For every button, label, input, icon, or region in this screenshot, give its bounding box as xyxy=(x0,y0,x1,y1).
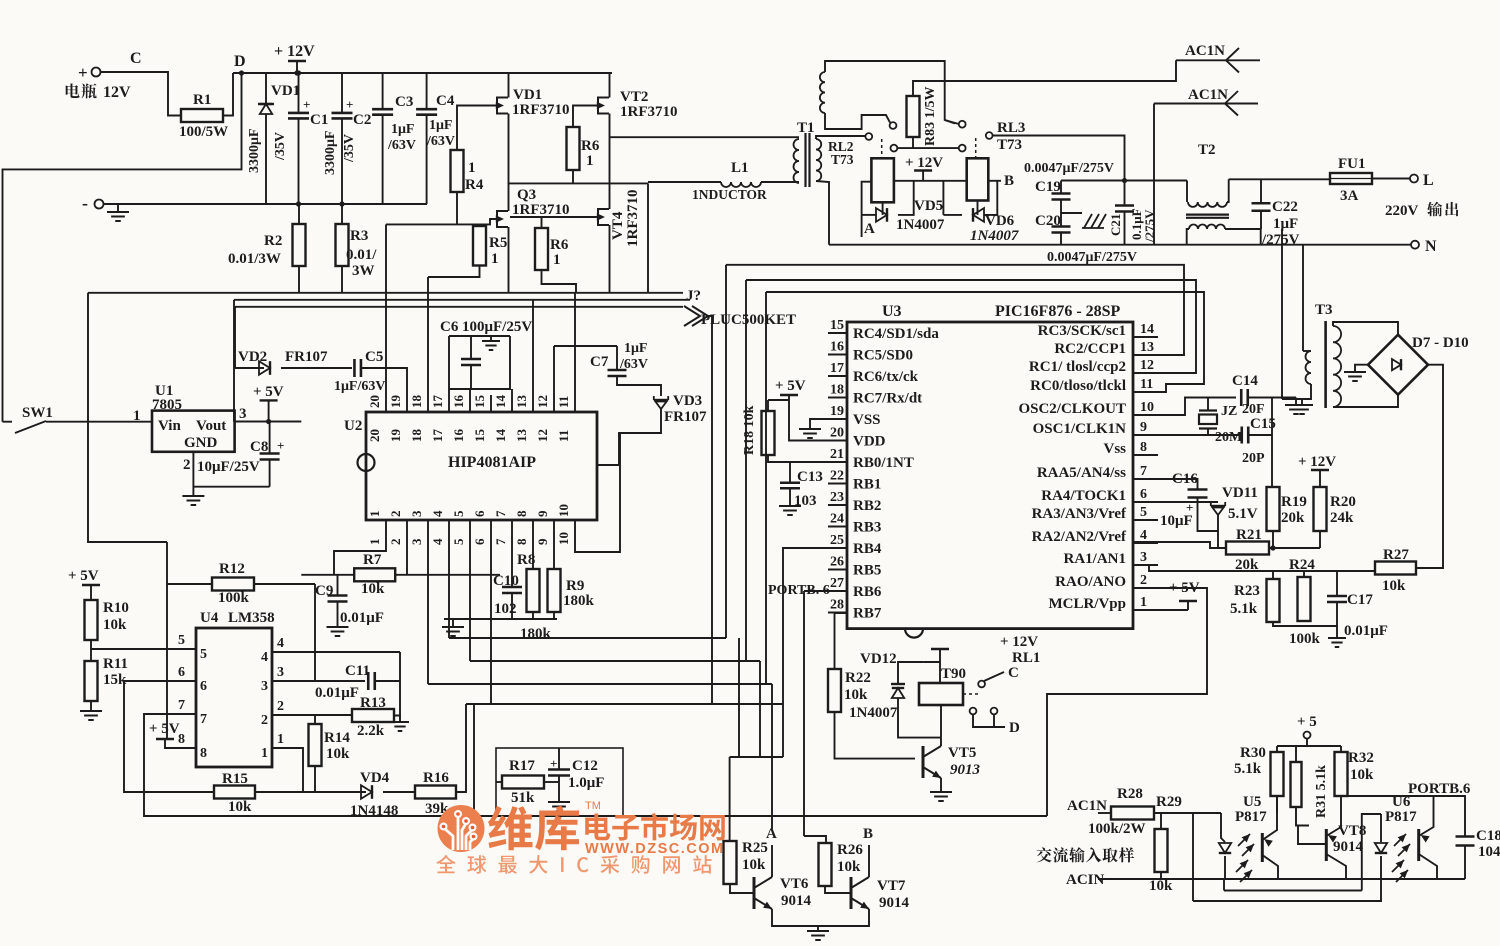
diode VD12 bar xyxy=(891,683,905,685)
wire R1 to node D xyxy=(223,73,233,116)
wire C18 bottom xyxy=(1464,846,1466,880)
svg-text:1RF3710: 1RF3710 xyxy=(512,102,570,118)
wire R3 bottom xyxy=(341,266,343,293)
resistor R9 xyxy=(548,569,561,612)
wire U2 pin20 up xyxy=(385,224,387,412)
transformer T2 core top xyxy=(1186,214,1229,216)
wire U2 pin14 up xyxy=(511,389,513,412)
terminal battery minus xyxy=(95,200,104,209)
svg-text:C: C xyxy=(1008,665,1019,681)
svg-text:C20: C20 xyxy=(1035,213,1061,229)
svg-text:10k: 10k xyxy=(844,687,868,703)
svg-text:5: 5 xyxy=(1140,505,1147,520)
svg-text:PORTB.6: PORTB.6 xyxy=(1408,781,1471,797)
svg-text:+: + xyxy=(346,97,353,112)
resistor R28 xyxy=(1111,807,1154,820)
wire R11 bottom xyxy=(90,701,92,711)
svg-text:3: 3 xyxy=(409,538,424,545)
svg-text:1RF3710: 1RF3710 xyxy=(512,202,570,218)
opto U6 arrow1 xyxy=(1398,834,1406,842)
wire J line2 xyxy=(234,299,690,301)
svg-text:1: 1 xyxy=(261,746,268,761)
svg-text:10μF/25V: 10μF/25V xyxy=(197,459,260,475)
svg-text:1μF: 1μF xyxy=(429,118,453,133)
svg-text:9: 9 xyxy=(535,510,550,517)
wire C8 top xyxy=(269,422,271,454)
pin 9 stub xyxy=(1133,434,1158,436)
svg-text:2: 2 xyxy=(277,699,284,714)
contact RL1 throw2 xyxy=(991,708,998,715)
svg-text:R1: R1 xyxy=(193,92,211,108)
svg-text:R15: R15 xyxy=(222,771,248,787)
wire C6 top line xyxy=(449,335,510,337)
svg-text:2: 2 xyxy=(1140,573,1147,588)
wire R30 bottom tail xyxy=(1276,796,1278,813)
transistor VT5 emitter arrow xyxy=(932,771,941,778)
pin 15 stub xyxy=(828,332,847,334)
svg-text:C9: C9 xyxy=(315,583,333,599)
mosfet Q3 gate arrow xyxy=(496,215,504,222)
wire VT4 gate line xyxy=(542,216,602,218)
svg-text:3A: 3A xyxy=(1340,188,1359,204)
wire U1 gnd to C8 bottom xyxy=(193,486,269,488)
svg-text:16: 16 xyxy=(451,395,466,409)
junction C1 top xyxy=(296,70,301,75)
wire U6 LED top xyxy=(1380,814,1382,842)
svg-text:R17: R17 xyxy=(509,758,535,774)
wire +5V wrap xyxy=(88,293,167,542)
transformer T1 core bar2 xyxy=(808,133,810,187)
svg-text:13: 13 xyxy=(514,429,529,443)
contact RL2 lower xyxy=(891,145,898,152)
wire +5 down xyxy=(1306,739,1308,747)
svg-text:20F: 20F xyxy=(1242,402,1265,417)
svg-text:20k: 20k xyxy=(1281,510,1305,526)
wire VD5 right xyxy=(898,181,914,215)
wire VD1 bottom xyxy=(265,114,267,204)
svg-text:13: 13 xyxy=(514,395,529,409)
wire R23 R24 bottom link xyxy=(1273,622,1337,626)
svg-text:1N4148: 1N4148 xyxy=(350,803,398,819)
capacitor C4 xyxy=(416,109,437,115)
power +12V RL1 bar xyxy=(931,648,949,650)
svg-text:L1: L1 xyxy=(731,160,749,176)
svg-text:OSC1/CLK1N: OSC1/CLK1N xyxy=(1033,421,1127,437)
wire VD2 left xyxy=(235,367,264,369)
svg-text:1: 1 xyxy=(586,153,594,169)
wire R12 left xyxy=(167,583,212,585)
wire C12 bottom xyxy=(558,776,560,802)
svg-text:/63V: /63V xyxy=(387,138,416,153)
wire C7 line xyxy=(554,345,617,347)
wire pin6 loop xyxy=(124,681,214,792)
svg-text:17: 17 xyxy=(430,429,445,443)
svg-text:/35V: /35V xyxy=(342,134,357,163)
capacitor C9 xyxy=(328,596,348,602)
transformer T1 secondary xyxy=(816,139,821,181)
wire node A stub xyxy=(861,215,863,237)
wire R18 top stem xyxy=(767,400,769,411)
ground C9 xyxy=(327,627,349,636)
resistor R6b xyxy=(535,228,548,270)
wire C6 stem top xyxy=(470,336,472,358)
wire bus1 xyxy=(449,637,726,639)
wire R12 to pin3 col xyxy=(314,584,316,681)
wire JZ top stem xyxy=(1207,398,1209,411)
transformer T1 primary xyxy=(794,139,799,183)
svg-text:23: 23 xyxy=(830,490,844,505)
svg-text:17: 17 xyxy=(430,395,445,409)
svg-text:WWW.DZSC.COM: WWW.DZSC.COM xyxy=(585,841,725,857)
wire RA1 line xyxy=(1133,565,1375,571)
opto U6 arrow3 xyxy=(1396,860,1404,868)
wire relay bottom to VT5 xyxy=(940,705,942,738)
wire C5 to pin19 xyxy=(361,368,407,412)
fuse FU1 xyxy=(1330,173,1372,184)
wire VT4 drain xyxy=(609,137,611,209)
svg-text:R16: R16 xyxy=(423,770,449,786)
resistor R17 xyxy=(502,776,544,789)
wire U2 pin3 down xyxy=(427,520,429,684)
wire OSC2 to C14 xyxy=(1133,398,1236,416)
ground bridge xyxy=(1344,372,1366,381)
capacitor C5 xyxy=(354,359,361,377)
resistor R12 xyxy=(212,578,254,591)
wire MCLR stem xyxy=(1187,601,1189,610)
wire line3 xyxy=(1193,900,1382,902)
svg-text:U2: U2 xyxy=(344,418,362,434)
svg-text:11: 11 xyxy=(556,396,571,408)
wire C1 top xyxy=(298,73,300,112)
arrow AC1N2 xyxy=(1225,91,1238,116)
wire VSS ground xyxy=(810,419,847,429)
opto U5 arrow4 xyxy=(1244,870,1252,878)
wire +5V stem U1 xyxy=(268,400,270,421)
wire VD6 left riser xyxy=(942,181,944,215)
wire U2 pin17 up xyxy=(448,336,450,412)
svg-text:C19: C19 xyxy=(1035,179,1061,195)
wire T1 secondary top xyxy=(816,136,865,139)
svg-text:1RF3710: 1RF3710 xyxy=(625,190,641,248)
svg-text:3300μF: 3300μF xyxy=(247,129,262,174)
wire drop to line3 xyxy=(1192,813,1194,901)
svg-text:7: 7 xyxy=(200,712,207,727)
wire AC1N1 xyxy=(1176,59,1260,61)
svg-text:C6: C6 xyxy=(440,319,459,335)
pin 27 stub xyxy=(828,590,847,592)
wire PORTB6 line xyxy=(1341,796,1465,837)
svg-text:AC1N: AC1N xyxy=(1188,87,1228,103)
svg-text:10: 10 xyxy=(556,532,571,545)
svg-text:19: 19 xyxy=(388,429,403,443)
svg-text:27: 27 xyxy=(830,576,844,591)
svg-text:10k: 10k xyxy=(361,581,385,597)
wire C22 bottom stem xyxy=(1260,211,1262,229)
pin 7 stub xyxy=(1133,478,1158,480)
transformer T3 primary xyxy=(1306,351,1312,384)
svg-text:5.1V: 5.1V xyxy=(1228,506,1258,522)
svg-text:100/5W: 100/5W xyxy=(179,124,228,140)
contact RL2 upper xyxy=(890,122,897,129)
wire R5 bottom xyxy=(428,266,480,278)
wire 0V rail xyxy=(104,203,428,205)
wire R7 right xyxy=(395,574,500,576)
wire C17 bottom xyxy=(1336,603,1338,639)
svg-text:R19: R19 xyxy=(1281,494,1307,510)
wire OSC1 line xyxy=(1133,434,1241,436)
ground C17 xyxy=(1328,638,1346,647)
wire AC1N2 down xyxy=(1153,104,1155,245)
opto U5 arrow2 xyxy=(1246,844,1254,852)
svg-text:26: 26 xyxy=(830,555,844,570)
wire RL1 stem xyxy=(939,649,941,683)
resistor R25 xyxy=(724,841,737,884)
wire U6 LED bottom xyxy=(1380,856,1382,901)
svg-text:220V: 220V xyxy=(1385,203,1419,219)
svg-text:VD4: VD4 xyxy=(360,770,390,786)
transistor VT8 body xyxy=(1325,829,1328,861)
pin 22 stub xyxy=(828,483,847,485)
wire top bus2 xyxy=(746,280,1196,373)
box R17 C12 xyxy=(496,748,623,816)
wire bus4 xyxy=(466,703,783,705)
svg-text:10: 10 xyxy=(1140,400,1154,415)
wire L line xyxy=(1229,178,1330,180)
resistor R20 xyxy=(1314,487,1327,531)
wire RL3 coil bottom xyxy=(977,201,979,215)
wire relay +12V stem xyxy=(922,171,924,181)
svg-text:0.0047μF/275V: 0.0047μF/275V xyxy=(1047,250,1137,265)
wire R14 stem xyxy=(314,715,316,724)
wire FU1 to L terminal xyxy=(1372,178,1410,180)
power +5V R10 bar xyxy=(82,584,100,586)
svg-text:R22: R22 xyxy=(845,670,871,686)
wire C9 bottom xyxy=(337,602,339,627)
svg-text:9014: 9014 xyxy=(879,895,910,911)
wire R4 bottom xyxy=(456,192,458,224)
svg-text:RC5/SD0: RC5/SD0 xyxy=(853,348,913,364)
svg-text:VT6: VT6 xyxy=(780,876,809,892)
wire chassis stub xyxy=(1061,212,1082,214)
svg-text:22: 22 xyxy=(830,469,844,484)
svg-text:6: 6 xyxy=(178,665,185,680)
wire R83 top to AC1N xyxy=(913,60,1176,96)
svg-text:16: 16 xyxy=(830,340,844,355)
svg-text:8: 8 xyxy=(514,538,529,545)
wire T2 top-right to L line xyxy=(1227,179,1229,202)
ground C14 xyxy=(1285,405,1307,414)
capacitor C3 xyxy=(372,109,393,115)
svg-text:VSS: VSS xyxy=(853,412,881,428)
wire upper winding bottom xyxy=(825,113,890,129)
wire to T3 primary A xyxy=(1281,229,1283,399)
opto U6 arrow2 xyxy=(1402,844,1410,852)
ground VT6 VT7 xyxy=(807,931,829,940)
svg-text:R23: R23 xyxy=(1234,583,1260,599)
svg-text:+ 5V: + 5V xyxy=(253,384,284,400)
ic U3 notch xyxy=(905,629,923,638)
ic U3 PIC16F876 body xyxy=(847,322,1133,629)
capacitor C20 xyxy=(1052,227,1071,233)
opto U6 transistor body xyxy=(1417,829,1420,861)
wire C19 C20 link xyxy=(1060,200,1062,226)
svg-text:0.01μF: 0.01μF xyxy=(1344,623,1388,639)
wire U2 pin9 down R9 xyxy=(553,520,555,569)
svg-text:0.01μF: 0.01μF xyxy=(340,610,384,626)
wire comb drop R25 xyxy=(729,757,731,841)
svg-text:100k: 100k xyxy=(218,590,250,606)
arrow AC1N1 xyxy=(1226,48,1239,73)
svg-text:T2: T2 xyxy=(1198,142,1216,158)
wire J out xyxy=(706,316,712,704)
wire U2 pin1 down xyxy=(334,520,386,575)
wire VT6 collector up xyxy=(771,845,773,877)
wire RB4 drop xyxy=(783,548,847,704)
ground VT5 xyxy=(930,792,952,801)
wire VT2 drain xyxy=(609,73,611,98)
wire R10R11 to pin5 xyxy=(91,648,196,650)
svg-text:12: 12 xyxy=(535,395,550,408)
wire line2 riser xyxy=(1362,814,1381,891)
relay RL2 coil xyxy=(871,158,894,202)
svg-text:D7 - D10: D7 - D10 xyxy=(1412,335,1469,351)
capacitor C16 xyxy=(1188,490,1208,498)
svg-text:C2: C2 xyxy=(353,112,371,128)
svg-text:+ 12V: + 12V xyxy=(1298,454,1336,470)
wire battery plus to R1 xyxy=(101,72,182,116)
wire pin8 wire xyxy=(165,739,196,748)
svg-text:B: B xyxy=(863,826,873,842)
wire VD1 top xyxy=(265,73,267,104)
svg-text:R28: R28 xyxy=(1117,786,1143,802)
wire RAA5 to C16 xyxy=(1133,479,1198,490)
svg-text:VD12: VD12 xyxy=(860,651,897,667)
svg-text:9: 9 xyxy=(1140,420,1147,435)
svg-text:7: 7 xyxy=(493,510,508,517)
transistor VT6 emitter arrow xyxy=(763,902,772,909)
svg-text:15: 15 xyxy=(472,395,487,409)
wire VD6 left xyxy=(943,214,962,216)
svg-text:LM358: LM358 xyxy=(228,610,275,626)
wire MCLR line xyxy=(1133,609,1188,611)
svg-text:Q3: Q3 xyxy=(517,187,536,203)
capacitor C10 xyxy=(502,587,522,593)
svg-text:C21: C21 xyxy=(1108,214,1123,236)
svg-text:104: 104 xyxy=(1478,844,1500,860)
wire R6b top xyxy=(510,217,542,228)
svg-text:VD1: VD1 xyxy=(513,87,542,103)
wire U2 pin8 down R8 xyxy=(532,520,534,569)
svg-text:VD1: VD1 xyxy=(271,83,300,99)
svg-text:R26: R26 xyxy=(837,842,863,858)
svg-text:10k: 10k xyxy=(228,799,252,815)
svg-text:ACIN: ACIN xyxy=(1066,872,1105,888)
wire U5 emitter xyxy=(1262,855,1278,879)
svg-text:14: 14 xyxy=(1140,322,1154,337)
pin 24 stub xyxy=(828,526,847,528)
transformer T3 secondary xyxy=(1333,326,1341,407)
wire +12V stem xyxy=(296,61,298,73)
wire R5 top xyxy=(479,224,481,226)
wire R21 right xyxy=(1269,547,1320,549)
wire +12V rail xyxy=(233,72,612,74)
label battery cjk xyxy=(66,83,97,98)
svg-text:20M: 20M xyxy=(1215,430,1242,445)
wire R29 stem xyxy=(1160,813,1162,829)
resistor R11 xyxy=(85,661,98,701)
svg-text:180k: 180k xyxy=(563,593,595,609)
wire C7 stem xyxy=(616,346,618,369)
watermark weiku text xyxy=(488,806,579,851)
resistor R31 xyxy=(1291,762,1302,807)
ground C12 xyxy=(548,802,570,811)
svg-text:+: + xyxy=(78,63,88,82)
mosfet Q3 body xyxy=(497,211,508,227)
crystal JZ xyxy=(1199,411,1217,429)
svg-text:+: + xyxy=(277,438,284,453)
junction D xyxy=(239,70,244,75)
wire C21 stem top xyxy=(1124,181,1126,206)
wire R26 to VT7 base xyxy=(825,886,851,893)
svg-text:5: 5 xyxy=(451,510,466,517)
svg-text:20: 20 xyxy=(367,429,382,442)
svg-text:RC2/CCP1: RC2/CCP1 xyxy=(1054,341,1126,357)
wire VT5 emitter down xyxy=(940,778,942,792)
svg-text:RB7: RB7 xyxy=(853,606,882,622)
svg-text:2: 2 xyxy=(388,511,403,518)
svg-text:FR107: FR107 xyxy=(285,349,328,365)
svg-text:C18: C18 xyxy=(1476,828,1500,844)
svg-text:R7: R7 xyxy=(363,552,382,568)
svg-text:6: 6 xyxy=(1140,487,1147,502)
wire U5 collector xyxy=(1262,813,1277,840)
wire ground stub under U2 xyxy=(452,619,454,627)
zener VD11 xyxy=(1211,502,1225,515)
svg-text:RB6: RB6 xyxy=(853,584,882,600)
svg-text:1: 1 xyxy=(367,511,382,518)
power relay +12V bar xyxy=(914,169,932,171)
wire R15 to VD4 xyxy=(255,791,366,793)
svg-text:10μF: 10μF xyxy=(1160,513,1193,529)
svg-text:R30: R30 xyxy=(1240,745,1266,761)
svg-text:C13: C13 xyxy=(797,469,823,485)
wire ground line under U2 xyxy=(444,618,557,620)
wire contact C xyxy=(984,672,1004,681)
svg-text:+: + xyxy=(303,97,310,112)
svg-text:RB5: RB5 xyxy=(853,563,881,579)
pin 5 stub xyxy=(1133,519,1158,521)
wire U2 pin10 loop xyxy=(575,433,620,552)
svg-text:U6: U6 xyxy=(1392,794,1411,810)
svg-text:1μF: 1μF xyxy=(1273,216,1298,232)
transistor VT7 xyxy=(851,877,869,909)
resistor R3 xyxy=(336,224,349,266)
resistor R15 xyxy=(214,786,255,799)
transformer T1 upper winding xyxy=(820,72,825,113)
svg-text:9014: 9014 xyxy=(781,893,812,909)
wire VD1 bar top xyxy=(258,103,274,105)
svg-text:R13: R13 xyxy=(360,695,386,711)
power +5V U3 bar xyxy=(780,394,798,396)
transformer T1 core bar1 xyxy=(804,133,806,187)
svg-text:4: 4 xyxy=(1140,528,1147,543)
svg-text:1: 1 xyxy=(468,160,476,176)
wire R23 stem xyxy=(1272,571,1274,579)
wire R13 right xyxy=(394,716,400,723)
svg-text:5.1k: 5.1k xyxy=(1234,761,1262,777)
svg-text:J?: J? xyxy=(686,288,701,304)
wire C8 bottom stem xyxy=(269,460,271,487)
